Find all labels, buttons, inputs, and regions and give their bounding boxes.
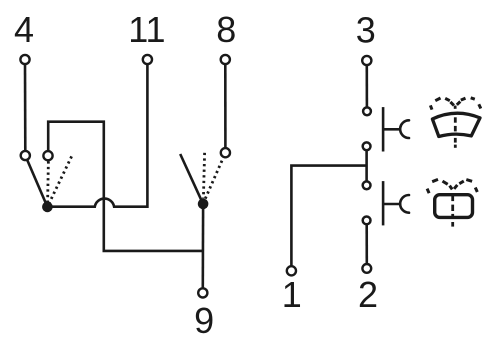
- terminal 1 circle: [287, 266, 296, 275]
- button1 upper contact circle: [363, 107, 371, 115]
- switch1 moving arm on contact A: [25, 156, 47, 207]
- wire terminal3 down to button1 upper contact: [365, 65, 368, 107]
- svg-text:8: 8: [216, 9, 236, 50]
- terminal 4 circle: [20, 55, 29, 64]
- wiper icon dashed spray arcs: [430, 98, 480, 110]
- svg-text:3: 3: [356, 9, 376, 50]
- svg-text:2: 2: [358, 274, 378, 315]
- wire contactB riser, top bar, crossing vertical and bottom bar to node 9 line: [48, 122, 203, 251]
- wire terminal1 up and right to junction: [291, 166, 366, 267]
- switch2 dotted position middle: [203, 153, 204, 199]
- wire switch2 common down to terminal 9: [202, 208, 205, 288]
- pushbutton2 actuator: [383, 181, 409, 225]
- washer icon dashed spray arcs: [427, 179, 477, 193]
- terminal 3 circle: [362, 56, 371, 65]
- pushbutton1 actuator: [383, 107, 409, 151]
- switch2 moving arm open position: [180, 154, 203, 204]
- terminal 9 circle: [198, 288, 207, 297]
- svg-text:1: 1: [282, 274, 302, 315]
- terminal 2 circle: [362, 264, 371, 273]
- wire button1 lower contact to button2 upper contact: [365, 150, 368, 181]
- wiper icon windshield body: [432, 113, 480, 136]
- switch1 dotted position middle: [46, 161, 50, 202]
- switch1 common node dot: [42, 202, 53, 213]
- svg-text:9: 9: [194, 300, 214, 341]
- button2 lower contact circle: [363, 217, 371, 225]
- button2 upper contact circle: [363, 181, 371, 189]
- wire terminal4 to contact A: [24, 65, 27, 151]
- switch1 dotted position right: [50, 156, 72, 202]
- button1 lower contact circle: [363, 142, 371, 150]
- contact B circle: [43, 151, 52, 160]
- terminal 11 circle: [143, 55, 152, 64]
- terminal 8 circle: [221, 55, 230, 64]
- washer icon dashed center line: [451, 196, 454, 227]
- svg-text:11: 11: [128, 9, 165, 50]
- switch2 common node dot: [198, 199, 209, 210]
- wire switch1 common to terminal 11 with hop over crossing: [50, 64, 147, 207]
- wire button2 lower contact to terminal 2: [365, 224, 368, 264]
- wire terminal8 to contact C: [224, 64, 227, 148]
- wiper icon dashed center line: [454, 106, 457, 148]
- contact A circle: [21, 151, 30, 160]
- contact C circle: [221, 148, 230, 157]
- switch2 dotted position right to contact C: [205, 156, 225, 201]
- svg-text:4: 4: [14, 9, 34, 50]
- washer icon reservoir body: [435, 195, 473, 218]
